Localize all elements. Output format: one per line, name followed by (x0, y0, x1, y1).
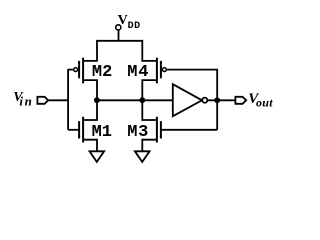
svg-text:M1: M1 (92, 123, 112, 142)
svg-text:V: V (118, 13, 128, 28)
svg-text:M3: M3 (127, 123, 149, 142)
svg-text:out: out (256, 95, 273, 109)
svg-text:DD: DD (128, 21, 141, 32)
svg-text:in: in (19, 94, 33, 109)
svg-text:M4: M4 (127, 63, 149, 82)
svg-text:M2: M2 (92, 63, 112, 82)
